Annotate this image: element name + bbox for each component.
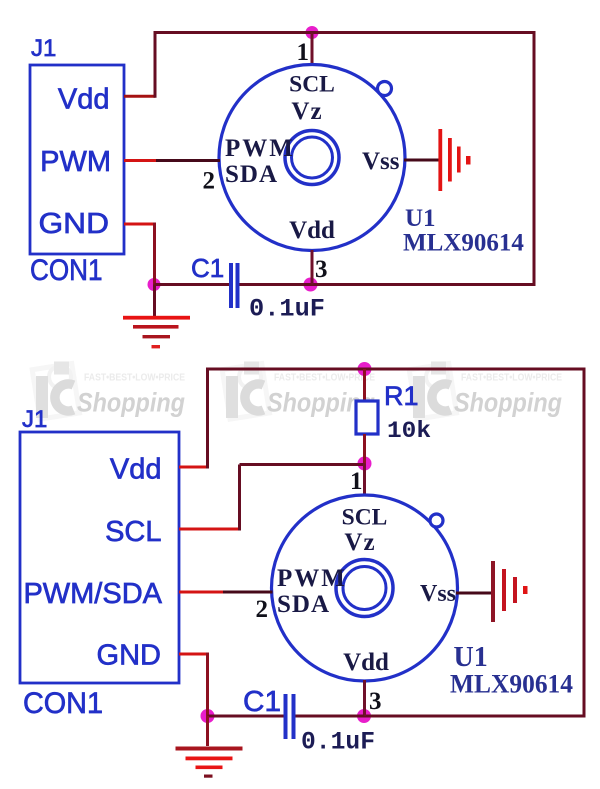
wire ground stub (top) (153, 285, 156, 317)
wire right edge loop (top) (533, 31, 536, 286)
junction node pin3/C1 (bottom) (357, 709, 371, 723)
svg-text:R1: R1 (384, 381, 419, 411)
wire bottom loop (top) (311, 283, 536, 286)
earth ground Vss bar3 (bottom) (513, 577, 517, 603)
wire Vdd riser to rail (top) (154, 31, 157, 98)
wire Vdd stub (top) (124, 95, 155, 98)
ground symbol bar4 (bottom) (204, 775, 213, 778)
svg-text:CON1: CON1 (30, 254, 103, 287)
wire C1 left lead (top) (155, 283, 230, 286)
resistor R1 body (bottom) (356, 401, 378, 434)
svg-text:SDA: SDA (225, 161, 278, 188)
sensor body U1 circle (bottom) (272, 495, 458, 681)
wire Vss to ground (bottom) (456, 592, 492, 595)
earth ground Vss bar3 (top) (457, 147, 461, 173)
svg-text:10k: 10k (387, 418, 431, 445)
wire GND drop (top) (153, 223, 156, 285)
wire SCL stub red (bottom) (179, 528, 238, 531)
capacitor C1 right plate (top) (236, 263, 240, 308)
svg-text:C1: C1 (243, 686, 281, 718)
connector J1 (bottom) (20, 432, 179, 683)
svg-text:MLX90614: MLX90614 (450, 670, 573, 699)
svg-text:Vdd: Vdd (58, 84, 110, 116)
svg-text:PWM: PWM (225, 135, 295, 162)
svg-text:C1: C1 (191, 253, 224, 283)
ground symbol bar3 (bottom) (196, 766, 223, 770)
earth ground Vss bar2 (top) (448, 138, 452, 182)
svg-text:U1: U1 (454, 642, 488, 673)
wire Vdd riser to rail (bottom) (206, 368, 209, 469)
earth ground Vss bar1 (bottom) (491, 561, 495, 622)
wire GND stub red (bottom) (179, 653, 209, 656)
sensor lens inner circle (top) (292, 137, 333, 178)
wire R1 bottom lead (bottom) (363, 434, 366, 464)
wire PWM stub red (top) (124, 159, 156, 162)
svg-text:PWM: PWM (40, 146, 111, 178)
watermark tile 3 (409, 362, 562, 420)
svg-text:0.1uF: 0.1uF (301, 728, 375, 757)
svg-text:Vz: Vz (291, 98, 322, 125)
svg-text:J1: J1 (31, 35, 56, 62)
junction node GND/C1 (bottom) (201, 709, 215, 723)
junction node GND/C1 (top) (148, 278, 161, 291)
junction node pin3/C1 (top) (304, 278, 318, 292)
ground symbol bar3 (top) (143, 335, 171, 338)
svg-text:SCL: SCL (289, 72, 335, 98)
svg-text:2: 2 (256, 596, 269, 623)
ground symbol bar1 (top) (123, 316, 190, 320)
svg-text:1: 1 (350, 468, 363, 495)
svg-text:Vz: Vz (344, 529, 375, 556)
sensor lens outer circle (bottom) (336, 560, 393, 617)
ground symbol bar2 (bottom) (186, 757, 233, 761)
capacitor C1 left plate (top) (229, 263, 233, 308)
svg-text:SCL: SCL (105, 516, 161, 548)
svg-text:0.1uF: 0.1uF (249, 295, 325, 324)
junction node rail/pin1 (top) (306, 26, 319, 39)
wire top rail (bottom) (206, 368, 584, 371)
svg-text:J1: J1 (22, 406, 47, 433)
capacitor C1 right plate (bottom) (292, 694, 296, 739)
wire C1 left lead (bottom) (208, 715, 284, 718)
sensor body U1 circle (top) (219, 65, 405, 251)
wire pin3 drop (top) (311, 250, 314, 285)
wire top rail (top) (154, 31, 535, 34)
wire pin1 drop (bottom) (363, 464, 366, 498)
sensor tab circle (bottom) (430, 514, 443, 527)
svg-text:3: 3 (315, 256, 328, 283)
svg-text:U1: U1 (405, 205, 436, 232)
wire bottom loop (bottom) (364, 715, 586, 718)
wire PWM to sensor (top) (156, 159, 220, 162)
wire SCL horizontal to junction (bottom) (240, 463, 365, 466)
sensor lens inner circle (bottom) (343, 567, 386, 610)
watermark tile 1 (32, 362, 185, 420)
wire right edge loop (bottom) (583, 368, 586, 718)
svg-text:Vss: Vss (362, 148, 400, 175)
ground symbol bar2 (top) (133, 325, 179, 329)
svg-text:2: 2 (203, 168, 216, 195)
capacitor C1 left plate (bottom) (284, 694, 288, 739)
wire C1 right lead (bottom) (296, 715, 365, 718)
junction node rail/R1 (bottom) (358, 362, 372, 376)
connector J1 (top) (30, 65, 124, 254)
wire SCL riser (bottom) (238, 465, 241, 531)
svg-text:MLX90614: MLX90614 (403, 230, 524, 257)
svg-text:CON1: CON1 (23, 687, 103, 720)
wire ground stub (bottom) (206, 716, 209, 746)
svg-text:Vss: Vss (420, 581, 456, 607)
wire GND stub red (top) (124, 223, 155, 226)
ground symbol bar1 (bottom) (176, 747, 243, 751)
wire Vdd stub red (bottom) (179, 466, 209, 469)
svg-text:3: 3 (369, 688, 382, 715)
wire R1 top lead (bottom) (363, 369, 366, 402)
svg-text:PWM: PWM (277, 565, 347, 592)
svg-text:PWM/SDA: PWM/SDA (23, 578, 162, 610)
svg-text:1: 1 (297, 39, 310, 66)
earth ground Vss bar4 (top) (466, 156, 471, 165)
wire C1 right lead (top) (239, 283, 311, 286)
svg-text:Vdd: Vdd (343, 649, 389, 676)
wire Vss to ground (top) (404, 159, 440, 162)
earth ground Vss bar1 (top) (438, 129, 442, 191)
junction node R1/SCL/pin1 (bottom) (358, 457, 372, 471)
watermark tile 2 (222, 362, 375, 420)
svg-text:GND: GND (97, 640, 162, 672)
wire GND drop (bottom) (206, 653, 209, 717)
ground symbol bar4 (top) (152, 345, 161, 348)
wire PWM/SDA stub red (bottom) (179, 591, 223, 594)
sensor lens outer circle (top) (285, 131, 339, 185)
svg-text:Vdd: Vdd (289, 217, 335, 244)
sensor tab circle (top) (378, 82, 392, 96)
earth ground Vss bar2 (bottom) (502, 569, 506, 611)
svg-text:Vdd: Vdd (110, 454, 162, 486)
wire pin3 drop (bottom) (363, 680, 366, 716)
svg-text:SCL: SCL (342, 505, 388, 531)
earth ground Vss bar4 (bottom) (523, 586, 528, 594)
wire pin1 drop (top) (311, 33, 314, 67)
svg-text:GND: GND (39, 208, 110, 240)
svg-text:SDA: SDA (277, 591, 330, 618)
wire PWM/SDA to sensor (bottom) (223, 591, 273, 594)
